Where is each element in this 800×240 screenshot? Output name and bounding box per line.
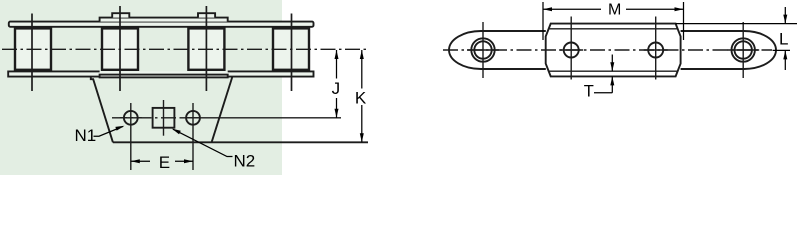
svg-text:K: K xyxy=(355,89,367,108)
svg-text:L: L xyxy=(779,30,788,49)
svg-text:N2: N2 xyxy=(234,151,256,170)
svg-text:N1: N1 xyxy=(75,126,97,145)
svg-text:J: J xyxy=(332,79,341,98)
svg-text:E: E xyxy=(159,153,170,172)
svg-text:M: M xyxy=(608,2,621,19)
svg-text:T: T xyxy=(584,83,594,101)
